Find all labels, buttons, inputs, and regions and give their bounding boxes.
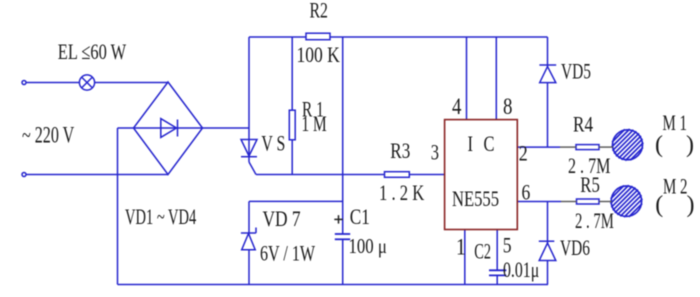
svg-text:): ) xyxy=(687,192,695,218)
svg-text:2: 2 xyxy=(519,142,528,166)
svg-text:~ 220 V: ~ 220 V xyxy=(22,123,75,148)
svg-text:0.01μ: 0.01μ xyxy=(503,259,539,283)
svg-text:C: C xyxy=(484,133,495,157)
svg-text:R5: R5 xyxy=(580,174,599,198)
svg-text:100 K: 100 K xyxy=(297,43,341,68)
svg-text:VD5: VD5 xyxy=(561,60,591,84)
svg-text:(: ( xyxy=(655,192,663,218)
svg-text:R4: R4 xyxy=(573,113,593,138)
svg-text:VD1 ~ VD4: VD1 ~ VD4 xyxy=(125,205,197,230)
svg-text:3: 3 xyxy=(431,141,439,165)
svg-text:8: 8 xyxy=(503,93,512,119)
svg-text:1 . 2 K: 1 . 2 K xyxy=(379,180,425,205)
svg-text:1: 1 xyxy=(456,234,466,260)
svg-text:M 2: M 2 xyxy=(663,175,688,200)
svg-text:2 . 7M: 2 . 7M xyxy=(575,209,614,234)
svg-text:5: 5 xyxy=(503,234,512,258)
svg-text:6: 6 xyxy=(522,181,531,205)
svg-text:VD6: VD6 xyxy=(560,236,590,260)
svg-text:M 1: M 1 xyxy=(663,111,688,136)
svg-text:I: I xyxy=(468,133,474,157)
svg-text:R2: R2 xyxy=(310,0,328,23)
svg-text:NE555: NE555 xyxy=(452,188,499,212)
svg-text:6V / 1W: 6V / 1W xyxy=(260,242,316,266)
svg-text:4: 4 xyxy=(452,93,462,119)
svg-text:VD 7: VD 7 xyxy=(263,207,301,231)
svg-text:C1: C1 xyxy=(350,205,370,230)
svg-text:(: ( xyxy=(655,132,663,158)
svg-text:100 μ: 100 μ xyxy=(349,235,387,258)
svg-text:V S: V S xyxy=(261,132,285,156)
svg-text:C2: C2 xyxy=(474,240,491,265)
svg-text:EL ≤60 W: EL ≤60 W xyxy=(58,40,127,65)
svg-text:): ) xyxy=(686,132,694,158)
svg-text:1 M: 1 M xyxy=(302,112,327,136)
svg-text:R3: R3 xyxy=(390,139,410,164)
